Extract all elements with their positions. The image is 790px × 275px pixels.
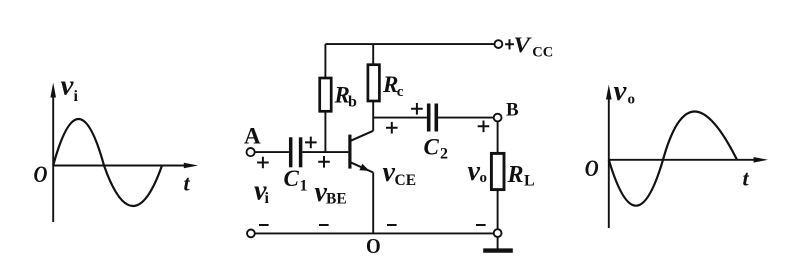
right graph sine wave vo bbox=[609, 111, 737, 205]
plus mark collector vce bbox=[386, 122, 398, 134]
svg-text:V: V bbox=[514, 33, 533, 57]
left graph horizontal axis bbox=[53, 165, 184, 167]
transistor emitter arrow bbox=[359, 164, 369, 171]
left graph t-axis arrowhead bbox=[184, 163, 198, 169]
svg-text:C: C bbox=[284, 166, 300, 191]
svg-text:CC: CC bbox=[532, 45, 553, 61]
svg-text:L: L bbox=[524, 173, 535, 190]
resistor Rc bbox=[368, 65, 380, 101]
transistor collector lead bbox=[351, 131, 374, 141]
svg-text:v: v bbox=[614, 75, 628, 107]
plus mark below base wire bbox=[318, 156, 330, 168]
svg-text:o: o bbox=[480, 170, 488, 186]
resistor Rb bbox=[320, 78, 332, 111]
svg-text:BE: BE bbox=[326, 191, 347, 208]
terminal bottom left bbox=[247, 230, 255, 238]
svg-text:t: t bbox=[184, 171, 191, 196]
right graph horizontal axis bbox=[609, 159, 755, 161]
plus mark near A bbox=[257, 157, 269, 169]
ground bar bbox=[483, 248, 513, 252]
svg-text:o: o bbox=[628, 92, 636, 108]
svg-text:C: C bbox=[424, 134, 440, 159]
right graph v-axis arrowhead bbox=[606, 85, 612, 100]
terminal A bbox=[247, 148, 255, 156]
plus mark left of C2 bbox=[411, 103, 423, 115]
terminal +Vcc bbox=[495, 40, 503, 48]
minus mark 2 bbox=[319, 224, 329, 226]
svg-text:A: A bbox=[244, 124, 261, 149]
svg-text:O: O bbox=[585, 155, 599, 181]
svg-text:2: 2 bbox=[440, 146, 448, 163]
terminal B bbox=[494, 114, 502, 122]
wire emitter vertical bbox=[372, 173, 374, 234]
bottom rail wire bbox=[255, 232, 494, 234]
svg-text:b: b bbox=[348, 93, 357, 110]
transistor Q base bar bbox=[348, 135, 351, 169]
capacitor C1 bbox=[289, 137, 293, 167]
svg-text:t: t bbox=[743, 166, 750, 191]
wire Rb bottom lead bbox=[324, 111, 326, 152]
right graph t-axis arrowhead bbox=[754, 157, 768, 163]
svg-text:v: v bbox=[61, 70, 75, 102]
svg-text:O: O bbox=[366, 235, 381, 258]
left graph vertical axis bbox=[52, 97, 54, 222]
capacitor C2 bbox=[427, 104, 431, 132]
minus mark 1 bbox=[259, 224, 269, 226]
plus mark of +Vcc bbox=[505, 39, 514, 49]
transistor emitter lead bbox=[351, 162, 374, 172]
svg-text:1: 1 bbox=[300, 178, 308, 195]
left graph sine wave vi bbox=[53, 119, 162, 206]
minus mark 4 bbox=[476, 224, 486, 226]
svg-text:B: B bbox=[506, 99, 519, 120]
wire collector to C2 bbox=[373, 117, 427, 119]
resistor RL bbox=[491, 153, 504, 189]
svg-text:R: R bbox=[507, 162, 524, 188]
svg-text:CE: CE bbox=[395, 172, 417, 189]
svg-text:c: c bbox=[397, 84, 404, 100]
minus mark 3 bbox=[387, 224, 397, 226]
top rail wire bbox=[325, 43, 494, 45]
left graph v-axis arrowhead bbox=[50, 83, 56, 98]
wire Rc bottom lead / collector vertical bbox=[372, 101, 374, 131]
svg-text:i: i bbox=[74, 88, 79, 105]
right graph vertical axis bbox=[608, 99, 610, 228]
wire C1 to base bbox=[302, 151, 348, 153]
wire Rc top lead bbox=[372, 44, 374, 65]
wire Rb top lead bbox=[324, 44, 326, 78]
wire B down to RL bbox=[497, 122, 499, 154]
wire C2 to B bbox=[438, 117, 494, 119]
wire RL to bottom terminal bbox=[497, 190, 499, 230]
ground stem bbox=[497, 237, 499, 249]
plus mark near B bbox=[478, 121, 490, 133]
svg-text:i: i bbox=[265, 190, 270, 207]
plus mark right of C1 bbox=[305, 137, 317, 149]
wire A to C1 bbox=[255, 151, 289, 153]
terminal bottom right bbox=[494, 229, 502, 237]
svg-text:O: O bbox=[34, 162, 48, 188]
